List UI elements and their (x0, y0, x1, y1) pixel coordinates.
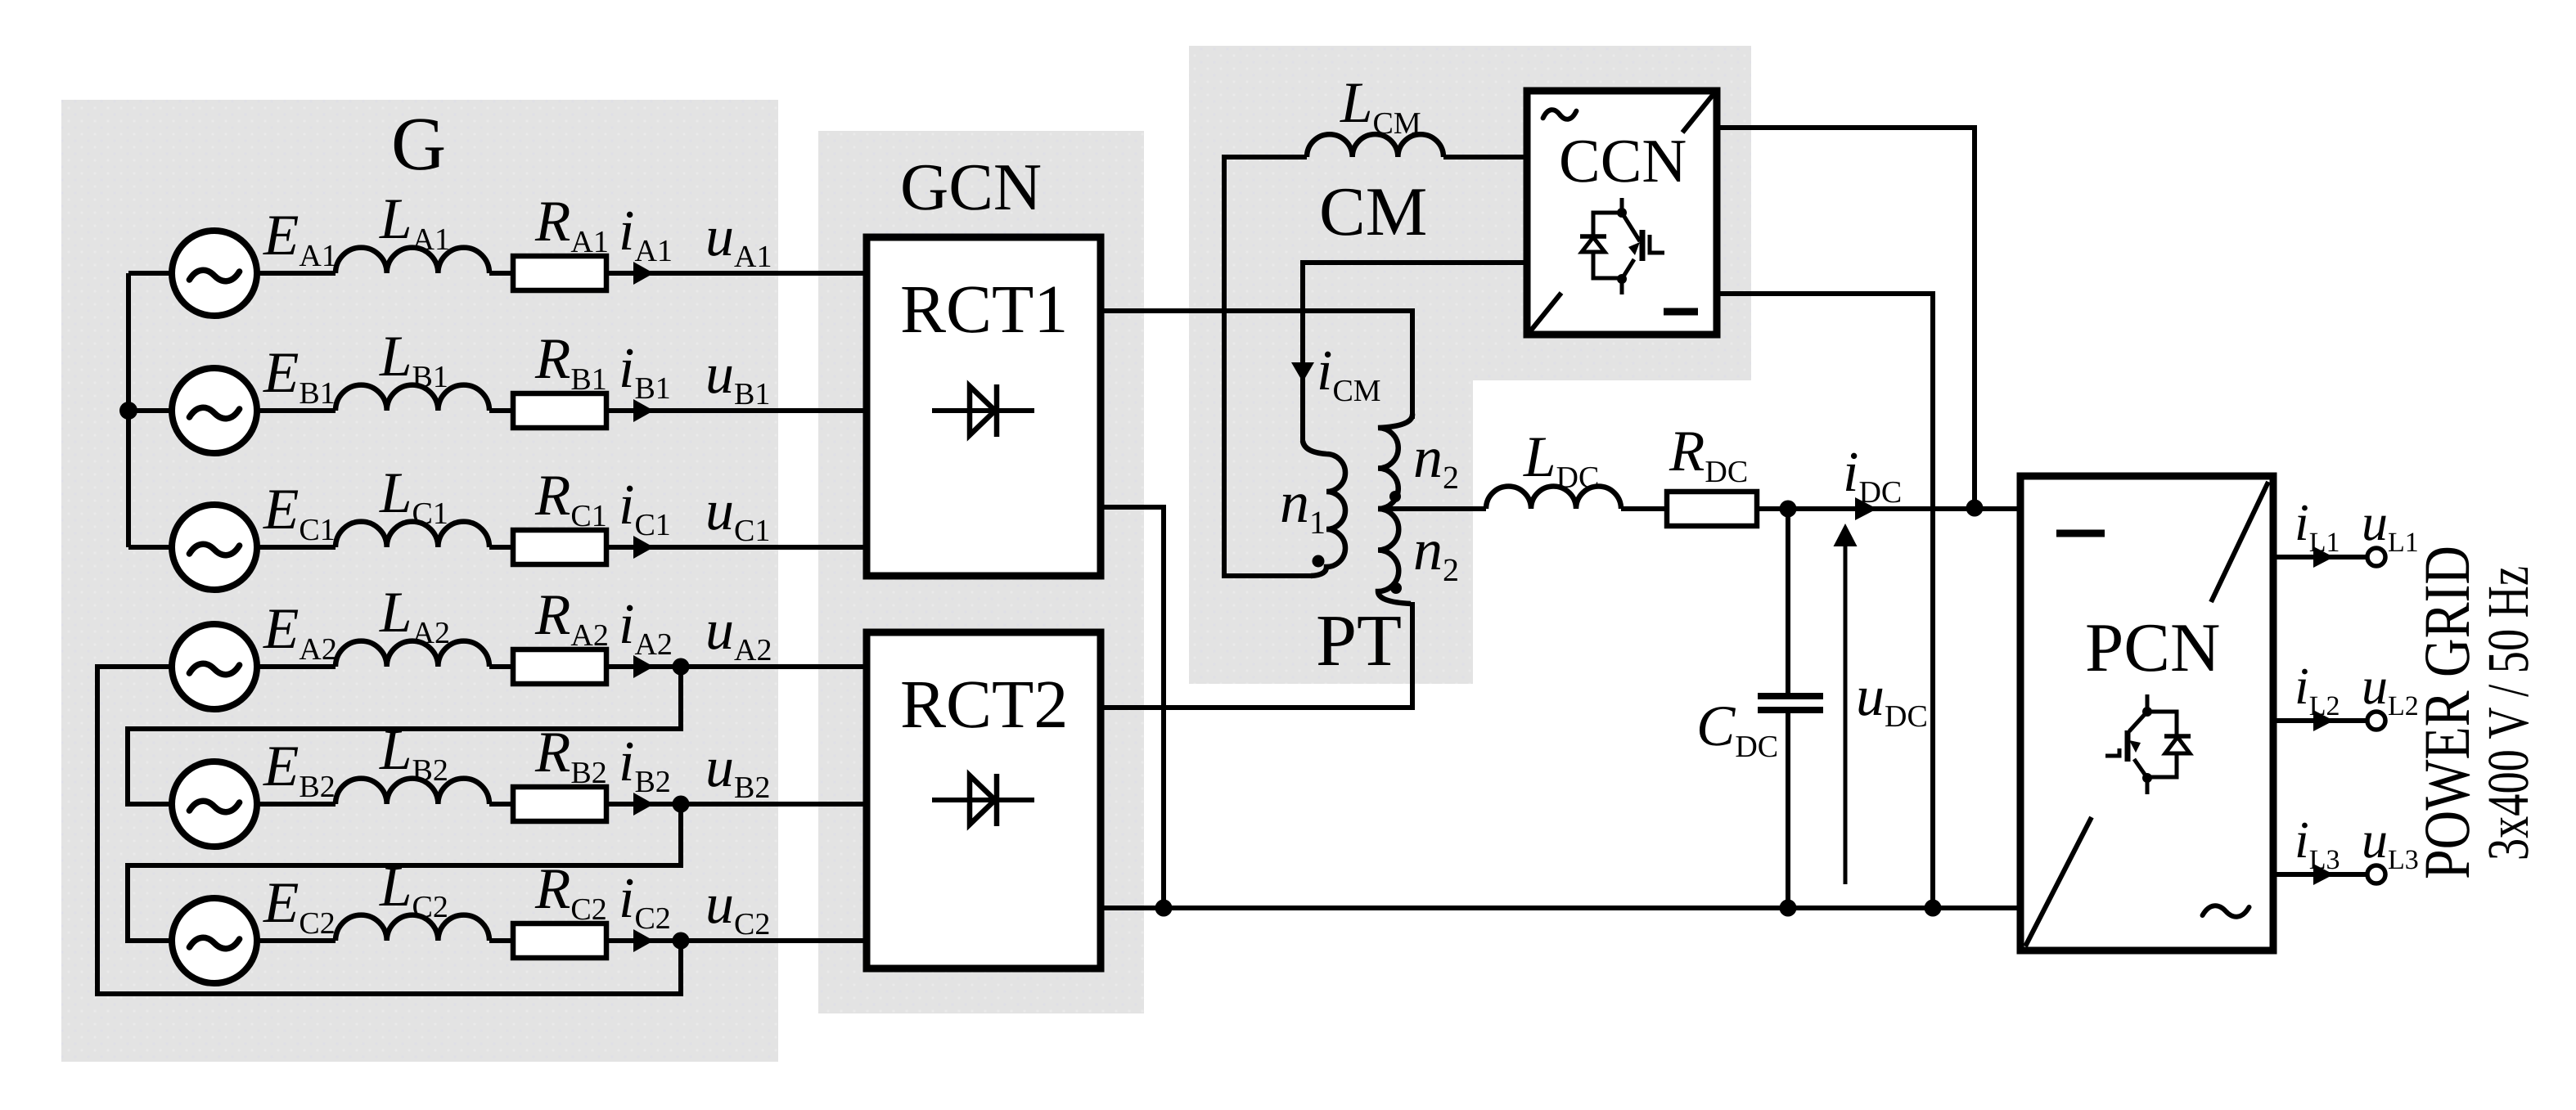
CCN minus (1664, 308, 1698, 316)
capacitor C_DC (1758, 509, 1823, 908)
node uC2 junction (673, 932, 690, 950)
wire L_CM to CCN (1443, 155, 1527, 160)
wire row C1 left (128, 545, 336, 550)
wire RCT2 top output to PT n2 bottom (1101, 602, 1412, 708)
node star point (119, 402, 137, 420)
svg-text:uDC: uDC (1856, 665, 1928, 734)
wire CCN bottom output (1717, 294, 1933, 908)
svg-text:iL3: iL3 (2295, 811, 2340, 875)
diode icon RCT2 (932, 774, 1034, 826)
rectifier RCT1 (867, 237, 1101, 576)
inverter PCN box (2020, 476, 2273, 950)
node uA2 junction (673, 658, 690, 676)
svg-text:RCT1: RCT1 (900, 272, 1068, 348)
svg-text:uL1: uL1 (2362, 493, 2419, 558)
source EA1 (172, 231, 257, 316)
diode icon RCT1 (932, 384, 1034, 437)
CCN corner slash top-right (1682, 94, 1714, 133)
CCN igbt icon (1580, 198, 1664, 294)
panel CM/PT region (1189, 46, 1751, 684)
wire DC- bus (1101, 906, 2020, 910)
resistor RB1 (513, 393, 606, 428)
wire row C2 right (489, 938, 867, 943)
wire row B2 right (489, 802, 867, 807)
source EA2 (172, 624, 257, 709)
svg-text:CM: CM (1319, 173, 1427, 250)
node n2 top polarity dot (1389, 491, 1401, 502)
terminal u_L1 (2367, 548, 2385, 566)
wire row B1 left (128, 408, 336, 413)
wire CCN lower input to n1 (1303, 263, 1527, 443)
node uB2 junction (673, 796, 690, 813)
resistor RA2 (513, 649, 606, 684)
arrow i_L2 (2313, 710, 2334, 731)
svg-text:RDC: RDC (1669, 420, 1748, 489)
transformer PT primary n1 (1303, 441, 1345, 576)
inductor LB2 (336, 779, 489, 804)
wire output L3 (2273, 872, 2367, 877)
terminal u_L2 (2367, 712, 2385, 730)
svg-text:G: G (391, 102, 446, 186)
wire row C1 right (489, 545, 867, 550)
arrow iB1 (633, 399, 654, 422)
svg-text:PT: PT (1316, 600, 1402, 681)
wire row A1 left (128, 271, 336, 276)
terminal u_L3 (2367, 865, 2385, 883)
wire delta C2 link (128, 804, 681, 941)
node CCN- on DC- (1925, 900, 1942, 917)
svg-text:iDC: iDC (1843, 441, 1902, 510)
wire row B2 left (168, 802, 336, 807)
source EB1 (172, 368, 257, 453)
wire RCT1 bottom output (1101, 507, 1164, 908)
CCN tilde (1543, 110, 1577, 119)
svg-text:iL1: iL1 (2295, 493, 2340, 558)
arrow iC2 (633, 929, 654, 952)
arrow iA2 (633, 655, 654, 678)
wire delta B2 link (128, 667, 681, 804)
svg-text:RCT2: RCT2 (900, 667, 1068, 743)
panel G (generator region) (61, 100, 778, 1062)
arrow i_DC (1855, 497, 1877, 520)
arrow i_CM (1291, 362, 1314, 382)
inductor LB1 (336, 385, 489, 411)
inductor LC1 (336, 522, 489, 547)
node n2 bottom polarity dot (1390, 582, 1402, 594)
svg-text:POWER GRID: POWER GRID (2412, 546, 2484, 879)
PCN minus (2056, 530, 2105, 537)
arrow iC1 (633, 536, 654, 559)
wire RCT1 top output to PT n2 (1101, 311, 1412, 419)
rectifier RCT2 (867, 632, 1101, 968)
PCN igbt icon (2105, 694, 2191, 794)
arrow u_DC measurement (1834, 524, 1858, 884)
resistor RC1 (513, 530, 606, 564)
resistor RC2 (513, 924, 606, 958)
inductor LC2 (336, 915, 489, 941)
wire row A1 right (489, 271, 867, 276)
PCN tilde (2203, 906, 2249, 916)
arrow i_L1 (2313, 546, 2334, 568)
node C_DC top (1780, 501, 1797, 518)
inductor LA1 (336, 248, 489, 273)
node CCN+ on DC+ (1966, 500, 1984, 517)
node C_DC bottom (1780, 900, 1797, 917)
resistor RB2 (513, 787, 606, 821)
svg-text:CCN: CCN (1559, 127, 1687, 195)
svg-text:iL2: iL2 (2295, 657, 2340, 721)
transformer PT secondary n2 top (1378, 414, 1412, 509)
transformer PT secondary n2 bottom (1378, 509, 1411, 604)
PCN corner slash top-right (2211, 482, 2268, 602)
arrow iB2 (633, 793, 654, 816)
svg-text:uL3: uL3 (2362, 811, 2419, 875)
wire PT centre tap (1378, 506, 1486, 511)
node RCT1- to bus (1155, 900, 1173, 917)
wire row C2 left (168, 938, 336, 943)
wire row A2 left (168, 664, 336, 669)
source EB2 (172, 762, 257, 847)
svg-text:GCN: GCN (900, 150, 1042, 224)
svg-text:3x400 V / 50 Hz: 3x400 V / 50 Hz (2475, 566, 2541, 861)
wire row A2 right (489, 664, 867, 669)
resistor R_DC (1667, 492, 1757, 526)
svg-text:LDC: LDC (1523, 425, 1599, 495)
svg-text:CDC: CDC (1696, 694, 1778, 764)
svg-text:PCN: PCN (2085, 609, 2220, 686)
PCN corner slash bottom-left (2025, 817, 2092, 946)
wire L_CM loop left (1224, 157, 1313, 576)
source EC2 (172, 898, 257, 983)
resistor RA1 (513, 256, 606, 290)
wire delta A2 loop (97, 667, 681, 994)
CCN corner slash bottom-left (1530, 293, 1561, 331)
svg-text:uL2: uL2 (2362, 657, 2419, 721)
arrow iA1 (633, 262, 654, 285)
wire CCN top output (1717, 128, 1975, 508)
wire output L2 (2273, 718, 2367, 723)
source EC1 (172, 505, 257, 590)
wire DC+ (1621, 506, 1667, 511)
node n1 polarity dot (1313, 555, 1325, 568)
arrow i_L3 (2313, 864, 2334, 885)
panel GCN (rectifier region) (818, 131, 1144, 1013)
inductor LA2 (336, 641, 489, 667)
wire output L1 (2273, 555, 2367, 559)
converter CCN box (1527, 91, 1717, 335)
wire star neutral set1 (126, 273, 131, 547)
inductor L_CM (1307, 134, 1443, 157)
wire row B1 right (489, 408, 867, 413)
inductor L_DC (1486, 487, 1621, 510)
